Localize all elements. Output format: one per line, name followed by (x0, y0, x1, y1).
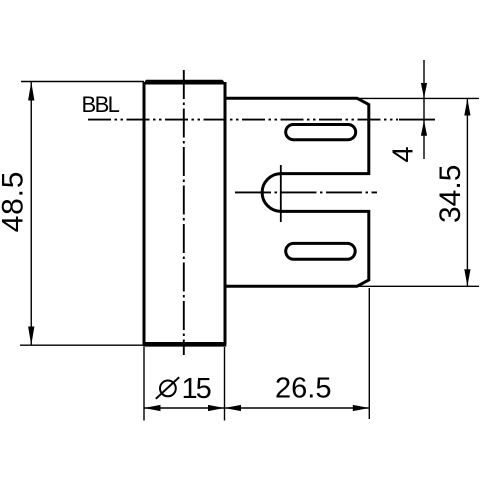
dimension 4 arrow up (below) (421, 120, 427, 135)
svg-text:26.5: 26.5 (275, 373, 331, 405)
notch vertical centerline (280, 165, 282, 222)
extension line below plate right edge (368, 288, 370, 419)
BBL reference line (phantom dash-dot-dot) (88, 119, 398, 121)
BBL reference line solid end segment (399, 119, 435, 121)
extension line below cylinder left (143, 347, 145, 421)
diameter symbol slash (156, 377, 179, 399)
svg-text:BBL: BBL (82, 92, 120, 117)
extension line top right (plate top) (357, 97, 479, 99)
notch horizontal centerline (235, 191, 377, 193)
dimension 48.5 line (30, 82, 32, 345)
dimension 34.5 arrow up (464, 99, 470, 116)
svg-text:48.5: 48.5 (0, 171, 30, 233)
svg-text:4: 4 (388, 146, 420, 162)
cylinder vertical centerline (183, 70, 185, 355)
diameter 15 arrow left (144, 405, 161, 411)
svg-text:34.5: 34.5 (434, 165, 467, 223)
extension line bottom right (plate bottom) (357, 285, 479, 287)
dimension 26.5 arrow right (353, 405, 370, 411)
cylinder barrel body outline (144, 82, 225, 345)
dimension 48.5 extension line top (21, 81, 144, 83)
dimension 48.5 arrow down (28, 327, 34, 346)
dimension 34.5 line (466, 98, 468, 286)
dimension 4 line (423, 60, 425, 159)
cylinder top cap (thick bar) (143, 80, 226, 85)
upper slotted hole (286, 125, 356, 140)
diameter 15 arrow right (208, 405, 225, 411)
extension line below cylinder right (shared) (224, 347, 226, 421)
dimension 4 arrow down (above) (421, 83, 427, 98)
dimension 26.5 arrow left (225, 405, 242, 411)
cylinder bottom cap (thick bar) (143, 342, 226, 347)
plate outline with chamfers and right-side notch (225, 98, 369, 286)
dimension line for diameter 15 and 26.5 (144, 407, 369, 409)
dimension 34.5 arrow down (464, 269, 470, 286)
dimension 48.5 arrow up (28, 82, 34, 101)
diameter symbol circle (160, 381, 176, 397)
svg-text:15: 15 (182, 373, 211, 405)
dimension 48.5 extension line bottom (20, 344, 144, 346)
lower slotted hole (286, 243, 356, 259)
